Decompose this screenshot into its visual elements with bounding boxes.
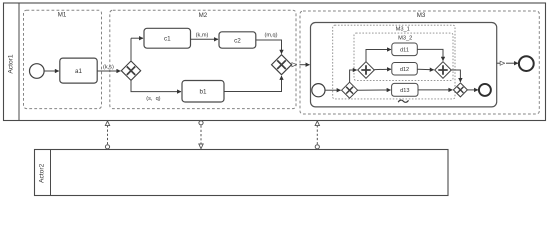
wire GWB to end event [467, 89, 478, 91]
wire start to a1 [44, 70, 59, 72]
svg-text:d13: d13 [400, 88, 409, 94]
svg-text:c2: c2 [234, 37, 241, 44]
gateway GWB (exclusive X) [453, 83, 467, 97]
wire d13 to GWB [418, 89, 452, 91]
pool Actor1 [4, 3, 546, 121]
region M3_1 [333, 25, 455, 99]
gateway P1 (parallel +) [358, 62, 375, 79]
wire P1 to d12 [374, 68, 391, 70]
task c1 [144, 28, 191, 48]
svg-text:b1: b1 [199, 89, 207, 96]
gateway GW1 (exclusive X) [121, 61, 140, 80]
wire GWA to d13 [358, 89, 391, 91]
end event (inner) [479, 84, 491, 96]
message flow 2 (Actor1 to Actor2, arrow down) [199, 121, 203, 149]
svg-text:(m,q): (m,q) [264, 33, 277, 39]
start event (M1) [30, 64, 45, 79]
svg-text:d11: d11 [400, 48, 409, 54]
message flow 1 (Actor2 to Actor1, arrow up) [105, 121, 109, 149]
wire d12 to P2 [417, 68, 433, 71]
region M2 [110, 10, 296, 108]
wire subprocess to end event 2 (boundary crossing) [497, 62, 518, 64]
task c2 [219, 32, 256, 48]
wire d11 to P2 [417, 49, 443, 60]
task d11 [392, 43, 418, 56]
wire c2 to GW2, label (m,q) [256, 33, 282, 54]
start event (M3) [312, 84, 325, 97]
svg-text:c1: c1 [164, 36, 171, 43]
svg-text:M3_1: M3_1 [396, 27, 410, 33]
wire b1 to GW2 [224, 76, 282, 92]
wire P1 up to d11 [366, 50, 391, 62]
wire GW1 to c1 [130, 38, 132, 61]
pool Actor2 [35, 150, 449, 196]
wire GW2 to subprocess M3 (boundary crossing) [292, 64, 310, 66]
region M3 [300, 11, 539, 114]
wire GW1 to b1, label (s, q) [131, 80, 181, 102]
subprocess M3 (solid rounded rect) [311, 23, 497, 107]
svg-text:a1: a1 [75, 68, 83, 75]
task a1 [60, 58, 97, 83]
task b1 [182, 81, 224, 103]
svg-text:(k,m): (k,m) [196, 33, 209, 39]
gateway GWA (exclusive X) [342, 82, 358, 98]
region M3_2 [354, 33, 453, 80]
wire c1 to c2, label (k,m) [191, 33, 219, 40]
svg-text:Actor1: Actor1 [8, 54, 15, 74]
gateway GW2 (exclusive X) [272, 55, 292, 75]
svg-text:Actor2: Actor2 [38, 163, 45, 183]
svg-text:M3_2: M3_2 [398, 35, 412, 41]
wire GWA up to P1 [350, 70, 357, 82]
wire a1 to gateway GW1, label (k,s) [97, 64, 120, 71]
region M1 [24, 10, 102, 108]
svg-text:M1: M1 [58, 11, 67, 18]
message flow 3 (Actor2 to Actor1, arrow up) [315, 121, 319, 149]
end event (outer) [519, 56, 534, 71]
wire P2 to GWB [451, 70, 460, 82]
adhoc marker ~ [398, 100, 408, 102]
svg-text:(k,s): (k,s) [103, 64, 114, 70]
task d13 [392, 83, 418, 96]
svg-text:M3: M3 [417, 12, 426, 19]
wire start3 to GWA [325, 89, 341, 91]
svg-text:(s, q): (s, q) [146, 96, 160, 102]
gateway P2 (parallel +) [435, 62, 452, 79]
svg-text:M2: M2 [199, 12, 208, 19]
svg-text:d12: d12 [400, 67, 409, 73]
task d12 [392, 63, 418, 76]
